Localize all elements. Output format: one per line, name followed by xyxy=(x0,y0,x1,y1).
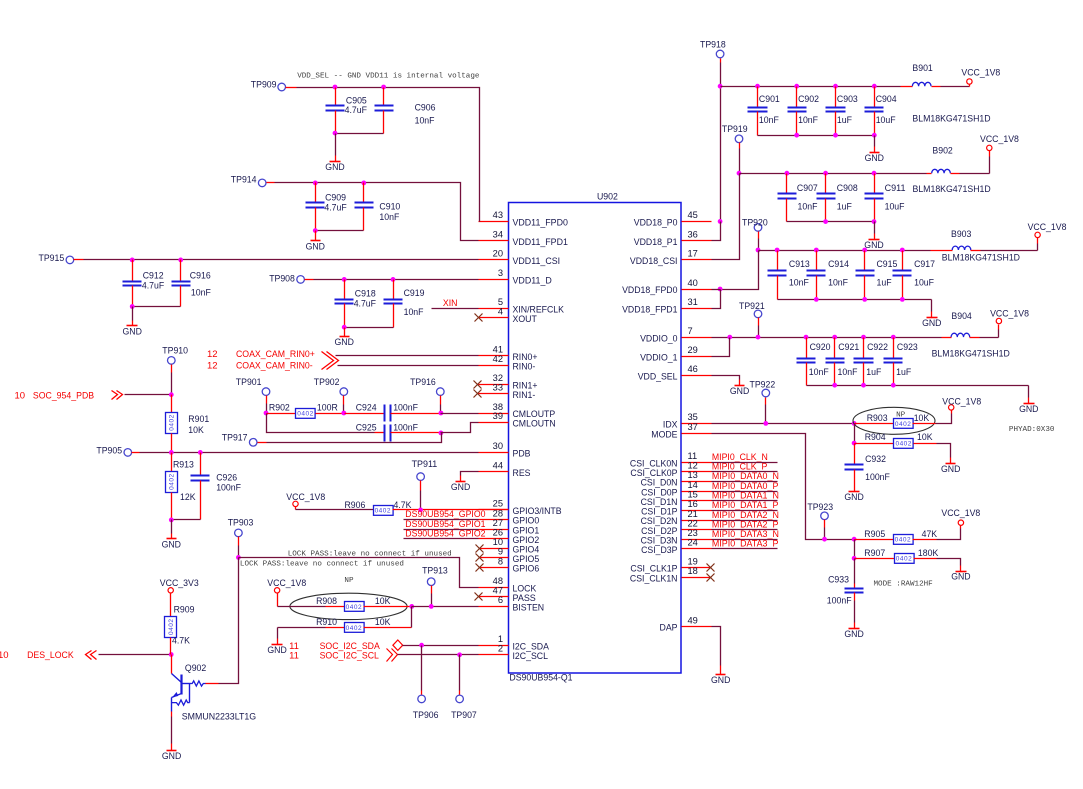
net MIPI0_DATA0_P xyxy=(712,481,779,492)
wire TP917 stub xyxy=(258,442,267,444)
op-amp U902 body (deserializer DS90UB954-Q1) xyxy=(509,191,682,683)
wire R903 right lead xyxy=(913,423,936,425)
capacitor C903 xyxy=(826,87,858,136)
ferrite bead B904 xyxy=(932,311,1010,359)
power VCC_1V8 xyxy=(990,309,1029,324)
wire gnd lead xyxy=(739,380,741,386)
pin 26 stub (GPIO2) xyxy=(479,528,540,546)
svg-text:R909: R909 xyxy=(174,604,195,615)
svg-text:15: 15 xyxy=(688,490,698,500)
svg-text:R908: R908 xyxy=(316,596,337,607)
svg-text:BLM18KG471SH1D: BLM18KG471SH1D xyxy=(912,114,990,125)
svg-text:24: 24 xyxy=(688,538,698,548)
svg-text:1: 1 xyxy=(498,634,503,644)
wire vcc lead xyxy=(277,594,279,607)
wire rail VDD18 xyxy=(721,86,901,88)
wire gnd lead xyxy=(277,639,279,645)
wire R902 right lead xyxy=(316,413,345,415)
svg-text:GPIO6: GPIO6 xyxy=(513,564,540,575)
svg-text:10nF: 10nF xyxy=(759,115,779,126)
junction xyxy=(822,537,827,542)
wire to VCC xyxy=(941,86,970,88)
test point TP910 xyxy=(162,346,188,365)
svg-text:0402: 0402 xyxy=(895,441,911,448)
svg-text:GND: GND xyxy=(123,327,143,338)
net MIPI0_DATA3_P xyxy=(712,539,779,550)
svg-text:10nF: 10nF xyxy=(191,288,211,299)
wire TP922 lead xyxy=(765,398,767,424)
svg-text:0402: 0402 xyxy=(375,507,391,514)
svg-text:47: 47 xyxy=(493,586,503,596)
pin 1 stub (I2C_SDA) xyxy=(479,634,550,652)
wire R904 left lead xyxy=(855,443,894,445)
svg-text:COAX_CAM_RIN0-: COAX_CAM_RIN0- xyxy=(236,361,313,372)
resistor R904 xyxy=(865,432,933,448)
svg-text:DAP: DAP xyxy=(660,623,678,634)
svg-text:25: 25 xyxy=(493,499,503,509)
pin 46 stub (VDD_SEL) xyxy=(638,364,712,382)
ellipse NP around R908 xyxy=(290,593,407,619)
svg-text:TP918: TP918 xyxy=(700,40,726,51)
junction xyxy=(861,335,866,340)
svg-text:0402: 0402 xyxy=(346,604,362,611)
svg-text:BISTEN: BISTEN xyxy=(513,603,545,614)
svg-text:PDB: PDB xyxy=(513,449,531,460)
svg-text:21: 21 xyxy=(688,509,698,519)
svg-text:35: 35 xyxy=(688,412,698,422)
wire C932 top lead xyxy=(854,444,856,465)
svg-text:TP915: TP915 xyxy=(39,253,65,264)
pin 30 stub (PDB) xyxy=(479,441,531,459)
svg-text:45: 45 xyxy=(688,210,698,220)
resistor R906 xyxy=(345,500,413,515)
svg-text:SOC_954_PDB: SOC_954_PDB xyxy=(33,390,94,401)
wire TP905 stub xyxy=(132,452,140,454)
junction xyxy=(775,248,780,253)
junction xyxy=(737,171,742,176)
svg-text:TP903: TP903 xyxy=(228,518,254,529)
test point TP920 xyxy=(742,218,768,232)
ellipse NP around R903 xyxy=(853,407,935,434)
svg-text:GND: GND xyxy=(922,318,942,329)
wire to R904 xyxy=(854,424,856,444)
capacitor C923 xyxy=(884,338,918,386)
test point TP915 xyxy=(39,253,74,264)
wire C920-C923 bottom xyxy=(807,385,1029,387)
junction xyxy=(341,411,346,416)
junction xyxy=(418,508,423,513)
junction xyxy=(342,277,347,282)
svg-text:B901: B901 xyxy=(912,63,932,74)
junction xyxy=(804,335,809,340)
svg-text:BLM18KG471SH1D: BLM18KG471SH1D xyxy=(942,253,1020,264)
svg-text:TP907: TP907 xyxy=(451,710,477,721)
svg-text:10nF: 10nF xyxy=(789,277,809,288)
svg-text:GND: GND xyxy=(451,482,471,493)
junction xyxy=(794,84,799,89)
pin 48 stub (LOCK) xyxy=(479,576,537,594)
node XIN label xyxy=(443,298,458,309)
wire R904 right lead xyxy=(914,443,937,445)
svg-text:GND: GND xyxy=(162,540,182,551)
junction xyxy=(852,537,857,542)
pin 5 stub (XIN/REFCLK) xyxy=(479,297,565,315)
pin 36 stub (VDD18_P1) xyxy=(634,229,712,247)
svg-text:9: 9 xyxy=(498,547,503,557)
junction xyxy=(756,248,761,253)
svg-text:C902: C902 xyxy=(798,94,819,105)
capacitor C915 xyxy=(856,251,898,300)
svg-text:4.7uF: 4.7uF xyxy=(324,202,346,213)
net MIPI0_DATA3_N xyxy=(712,529,780,540)
junction xyxy=(891,335,896,340)
net DS90UB954_GPIO2 xyxy=(405,528,485,539)
junction xyxy=(718,84,723,89)
svg-text:TP909: TP909 xyxy=(251,80,277,91)
svg-text:20: 20 xyxy=(493,249,503,259)
ground xyxy=(325,162,345,173)
svg-text:2: 2 xyxy=(498,644,503,654)
no-connect mark xyxy=(475,314,483,322)
capacitor C911 xyxy=(865,174,906,222)
junction xyxy=(852,441,857,446)
svg-text:COAX_CAM_RIN0+: COAX_CAM_RIN0+ xyxy=(236,349,315,360)
svg-text:43: 43 xyxy=(493,210,503,220)
pin 37 stub (MODE) xyxy=(651,422,711,440)
wire vcc lead xyxy=(998,325,1000,338)
wire emitter lead xyxy=(171,712,173,751)
test point TP908 xyxy=(269,274,304,285)
pin 7 stub (VDDIO_0) xyxy=(640,326,711,344)
svg-text:GND: GND xyxy=(162,751,182,762)
svg-text:17: 17 xyxy=(688,249,698,259)
wire R901 top lead xyxy=(171,395,173,413)
svg-text:VCC_3V3: VCC_3V3 xyxy=(160,578,199,589)
svg-text:C921: C921 xyxy=(838,342,859,353)
test point TP909 xyxy=(251,80,286,91)
junction xyxy=(264,411,269,416)
comment note xyxy=(288,551,452,559)
svg-text:R906: R906 xyxy=(345,500,366,511)
svg-text:GND: GND xyxy=(951,572,971,583)
wire TP911 lead xyxy=(420,481,422,510)
junction xyxy=(763,421,768,426)
svg-text:10: 10 xyxy=(493,537,503,547)
capacitor C901 xyxy=(748,87,780,136)
wire R905 left lead xyxy=(855,539,894,541)
port diamond SDA xyxy=(393,640,403,650)
wire VDD11_CSI net to pin 20 xyxy=(84,259,479,261)
ferrite bead B903 xyxy=(942,229,1020,264)
net DS90UB954_GPIO0 xyxy=(405,509,485,520)
svg-text:C916: C916 xyxy=(190,270,211,281)
wire gnd lead xyxy=(874,136,876,153)
resistor R907 xyxy=(864,548,939,563)
junction xyxy=(814,248,819,253)
junction xyxy=(823,219,828,224)
svg-text:TP916: TP916 xyxy=(410,377,436,388)
capacitor C919 xyxy=(384,280,425,328)
wire TP920 lead xyxy=(758,232,760,251)
pin 25 stub (GPIO3/INTB) xyxy=(479,499,562,517)
ground xyxy=(162,539,182,551)
pin 17 stub (VDD18_CSI) xyxy=(630,249,712,267)
pin 33 stub (RIN1-) xyxy=(479,383,536,401)
pin 41 stub (RIN0+) xyxy=(479,345,538,363)
test point TP911 xyxy=(412,459,438,480)
resistor R905 xyxy=(864,529,937,545)
ground xyxy=(451,482,471,494)
svg-text:12K: 12K xyxy=(180,492,196,503)
svg-text:MODE: MODE xyxy=(651,429,677,440)
ground xyxy=(711,675,731,686)
test point TP907 xyxy=(451,695,477,721)
capacitor C922 xyxy=(854,338,889,386)
wire pin 29 up xyxy=(712,338,730,357)
wire gnd lead xyxy=(335,156,337,162)
pin 16 stub (CSI_D1P) xyxy=(641,499,711,517)
svg-text:10: 10 xyxy=(0,650,9,661)
test point TP919 xyxy=(722,124,748,143)
wire R907 right lead xyxy=(914,558,937,560)
svg-text:TP917: TP917 xyxy=(222,432,248,443)
junction xyxy=(169,392,174,397)
wire rail VDD18_CSI xyxy=(740,173,927,175)
wire TP909 stub xyxy=(286,87,297,89)
svg-text:10nF: 10nF xyxy=(798,201,818,212)
wire bead stub xyxy=(931,250,953,252)
svg-text:TP911: TP911 xyxy=(412,459,438,470)
svg-text:C911: C911 xyxy=(885,183,906,194)
svg-text:C915: C915 xyxy=(877,259,898,270)
ground xyxy=(306,241,326,253)
svg-text:C913: C913 xyxy=(789,259,810,270)
capacitor C920 xyxy=(797,338,831,386)
wire R910 to ground xyxy=(277,628,279,639)
junction xyxy=(381,85,386,90)
ferrite bead B901 xyxy=(912,63,990,125)
svg-text:C914: C914 xyxy=(828,259,849,270)
svg-text:R907: R907 xyxy=(864,548,885,559)
svg-text:VCC_1V8: VCC_1V8 xyxy=(980,134,1019,145)
pin 6 stub (BISTEN) xyxy=(479,595,545,613)
test point TP903 xyxy=(228,518,254,537)
wire PDB net to pin 30 xyxy=(140,452,479,454)
svg-text:SMMUN2233LT1G: SMMUN2233LT1G xyxy=(182,711,256,722)
capacitor C904 xyxy=(865,87,897,136)
wire R903 left lead xyxy=(855,423,894,425)
comment NP note xyxy=(896,412,906,420)
svg-text:GND: GND xyxy=(730,386,750,397)
wire rail VDDIO xyxy=(712,337,942,339)
svg-text:VCC_1V8: VCC_1V8 xyxy=(286,492,325,503)
wire GPIO1 xyxy=(404,529,479,531)
capacitor C933 xyxy=(827,575,864,607)
svg-text:R901: R901 xyxy=(188,414,209,425)
svg-text:VDD11_CSI: VDD11_CSI xyxy=(513,256,561,267)
ground xyxy=(951,572,971,583)
junction xyxy=(718,219,723,224)
svg-text:GND: GND xyxy=(1019,404,1039,415)
wire xyxy=(854,601,856,629)
net DES_LOCK label xyxy=(0,650,74,661)
ground xyxy=(335,337,355,349)
resistor R902 xyxy=(269,403,338,419)
test point TP916 xyxy=(410,377,444,396)
wire RES to ground xyxy=(461,472,479,476)
junction xyxy=(832,383,837,388)
svg-text:SOC_I2C_SCL: SOC_I2C_SCL xyxy=(320,650,379,661)
pin 10 stub (GPIO4) xyxy=(479,537,540,555)
wire VDD18 down to pin 45 xyxy=(720,87,722,222)
svg-text:TP914: TP914 xyxy=(231,174,257,185)
wire TP901 lead xyxy=(266,396,268,414)
wire to ground xyxy=(171,520,173,534)
svg-text:11: 11 xyxy=(289,650,299,661)
pin 12 stub (CSI_CLK0P) xyxy=(630,461,711,479)
wire rail VDD18_FPD xyxy=(759,250,931,252)
svg-text:DS90UB954_GPIO2: DS90UB954_GPIO2 xyxy=(405,528,485,539)
resistor R913 xyxy=(166,459,197,503)
wire C901-C904 bottom xyxy=(758,135,875,137)
wire gnd lead xyxy=(720,666,722,675)
svg-text:10nF: 10nF xyxy=(838,367,858,378)
svg-text:100nF: 100nF xyxy=(216,483,241,494)
svg-text:GND: GND xyxy=(865,153,885,164)
wire SOC_954_PDB xyxy=(125,394,172,396)
ground xyxy=(922,318,942,330)
svg-text:1uF: 1uF xyxy=(837,115,852,126)
pin 27 stub (GPIO1) xyxy=(479,518,540,536)
wire vcc lead xyxy=(1037,238,1039,251)
net SOC_I2C_SCL label xyxy=(289,650,379,661)
svg-text:1uF: 1uF xyxy=(896,367,911,378)
svg-text:MODE :RAW12HF: MODE :RAW12HF xyxy=(874,581,934,589)
svg-text:BLM18KG471SH1D: BLM18KG471SH1D xyxy=(932,348,1010,359)
junction xyxy=(861,383,866,388)
junction xyxy=(169,652,174,657)
test point TP902 xyxy=(314,377,348,396)
net COAX_CAM_RIN0- label xyxy=(207,361,313,372)
svg-text:100nF: 100nF xyxy=(865,472,890,483)
svg-text:TP906: TP906 xyxy=(413,710,439,721)
wire R906 left xyxy=(296,509,374,511)
capacitor C912 xyxy=(123,260,165,307)
svg-text:27: 27 xyxy=(493,518,503,528)
wire TP908 stub xyxy=(305,279,314,281)
port chevron SCL xyxy=(387,649,398,662)
comment note xyxy=(240,561,404,569)
wire VDD18_CSI pin 17 xyxy=(712,174,740,260)
wire bead stub xyxy=(927,173,932,175)
wire TP919 lead xyxy=(739,143,741,174)
wire DAP to ground xyxy=(712,627,721,666)
svg-text:GND: GND xyxy=(844,492,864,503)
wire to C925 xyxy=(267,414,375,433)
wire BISTEN to pin 6 xyxy=(412,606,479,608)
junction xyxy=(130,304,135,309)
comment PHYAD xyxy=(1009,426,1055,434)
svg-text:NP: NP xyxy=(344,577,354,585)
pin 4 stub (XOUT) xyxy=(479,307,537,325)
pin 21 stub (CSI_D2N) xyxy=(641,509,712,527)
wire R910 up to BISTEN xyxy=(411,607,413,628)
junction xyxy=(333,85,338,90)
junction xyxy=(872,171,877,176)
svg-text:40: 40 xyxy=(688,278,698,288)
svg-text:0402: 0402 xyxy=(297,410,313,417)
svg-text:VDD11_D: VDD11_D xyxy=(513,276,552,287)
test point TP914 xyxy=(231,174,266,186)
power VCC_3V3 xyxy=(160,578,199,593)
svg-text:B904: B904 xyxy=(951,311,971,322)
svg-text:C924: C924 xyxy=(356,403,377,414)
wire to ground xyxy=(132,307,134,321)
svg-text:44: 44 xyxy=(493,461,503,471)
pin 20 stub (VDD11_CSI) xyxy=(479,249,561,267)
svg-text:GND: GND xyxy=(864,240,884,251)
wire TP910 lead xyxy=(171,365,173,395)
junction xyxy=(429,604,434,609)
svg-text:10uF: 10uF xyxy=(876,115,896,126)
net MIPI0_DATA1_N xyxy=(712,491,780,502)
wire vcc lead xyxy=(960,526,962,529)
svg-text:36: 36 xyxy=(688,229,698,239)
pin 19 stub (CSI_CLK1P) xyxy=(630,556,711,574)
wire R908 right lead xyxy=(364,606,412,608)
svg-text:TP901: TP901 xyxy=(236,377,262,388)
svg-text:B903: B903 xyxy=(951,229,971,240)
junction xyxy=(391,277,396,282)
junction xyxy=(439,411,444,416)
wire gnd lead xyxy=(460,476,462,482)
wire TP907 lead xyxy=(459,655,461,696)
wire gnd lead xyxy=(1028,386,1030,404)
no-connect mark xyxy=(476,545,484,553)
svg-text:XOUT: XOUT xyxy=(513,314,537,325)
svg-text:1uF: 1uF xyxy=(866,367,881,378)
capacitor C908 xyxy=(817,174,858,222)
svg-text:10nF: 10nF xyxy=(379,212,399,223)
svg-text:31: 31 xyxy=(688,297,698,307)
svg-text:XIN: XIN xyxy=(443,298,458,309)
svg-text:37: 37 xyxy=(688,422,698,432)
junction xyxy=(891,383,896,388)
svg-text:12: 12 xyxy=(688,461,698,471)
svg-text:C904: C904 xyxy=(876,94,897,105)
wire TP906 lead xyxy=(421,646,423,696)
junction xyxy=(409,604,414,609)
svg-text:10nF: 10nF xyxy=(809,367,829,378)
wire bead stub xyxy=(932,86,941,88)
capacitor C932 xyxy=(845,454,891,492)
wire TP916 lead xyxy=(440,396,442,414)
wire R908 left lead xyxy=(326,606,345,608)
offpage chevron DES_LOCK xyxy=(86,651,97,660)
junction xyxy=(236,555,241,560)
svg-text:C910: C910 xyxy=(379,202,400,213)
svg-text:11: 11 xyxy=(688,451,698,461)
wire gnd lead xyxy=(874,222,876,240)
pin 32 stub (RIN1+) xyxy=(479,373,538,391)
capacitor C905 xyxy=(326,88,368,134)
capacitor C909 xyxy=(306,183,347,231)
junction xyxy=(419,643,424,648)
junction xyxy=(862,297,867,302)
wire base resistor lead xyxy=(206,683,219,685)
pin 24 stub (CSI_D3P) xyxy=(641,538,711,556)
svg-text:DES_LOCK: DES_LOCK xyxy=(27,650,74,661)
